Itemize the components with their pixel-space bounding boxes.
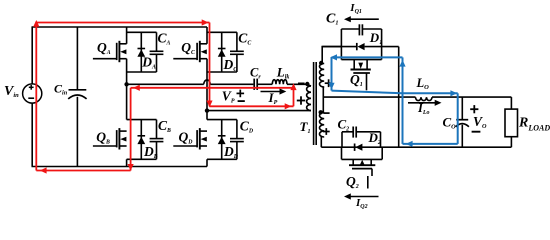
wire: CB branch bottom (156, 142, 158, 160)
wire: QA leg drain (126, 27, 128, 44)
wire: CO branch top (461, 97, 463, 119)
wire: blue middle horizontal (332, 91, 458, 94)
wire: D1 branch (322, 46, 356, 48)
wire: red right-leg vertical (209, 23, 211, 107)
wire: red transformer-side vertical (293, 88, 295, 107)
wire: clamp common vertical to output rail (398, 47, 400, 148)
wire: Q2 branch (341, 147, 343, 159)
wire: CD branch bottom (236, 142, 238, 160)
transformer T1 core (313, 62, 315, 145)
wire: Cr to Llk (258, 83, 272, 85)
red arrow down right-leg (206, 101, 212, 108)
voltage source Vin (23, 84, 42, 103)
capacitor CC (230, 51, 244, 54)
wire: Cin branch top (76, 27, 78, 89)
diode D2 (on bottom rail) (354, 144, 356, 151)
wire: DC branch (221, 32, 223, 72)
wire: LO to output node (432, 96, 511, 98)
diode DD (218, 136, 226, 144)
transistor QD (173, 128, 207, 149)
wire: top rail (32, 26, 208, 28)
diode D1 (356, 43, 358, 50)
blue arrow left clamp top (330, 54, 337, 60)
red arrow right lower segment (285, 103, 292, 109)
wire: red loop left vertical (35, 22, 37, 171)
wire: DA branch (140, 32, 142, 72)
wire: red lower segment to transformer (210, 105, 294, 107)
wire: top secondary to clamp (322, 47, 341, 63)
label secondary top plus (325, 82, 333, 84)
transformer T1 primary winding (307, 86, 311, 111)
transistor QC (173, 41, 207, 62)
transistor QA (93, 41, 127, 62)
wire: CO branch bottom (461, 125, 463, 147)
wire: CA branch bottom (156, 55, 158, 73)
diode DA (137, 49, 145, 57)
wire: QD group top bus (207, 119, 237, 121)
wire: DD branch (221, 120, 223, 160)
red arrow left upper return (133, 85, 140, 91)
node: right leg midpoint (205, 108, 209, 112)
blue arrow left output bottom (406, 141, 413, 147)
node: secondary top dot (319, 61, 323, 65)
wire: red left-leg vertical (130, 88, 132, 171)
wire: QA group top bus (127, 31, 157, 33)
wire: QC leg drain (206, 27, 208, 44)
wire: top secondary bottom to center tap (322, 87, 324, 113)
capacitor CO (456, 119, 468, 121)
wire: clamp2 right vertical (380, 132, 382, 147)
wire: CC branch bottom (236, 55, 238, 73)
transistor QB (93, 128, 127, 149)
red arrow left bottom rail (40, 167, 47, 173)
label VO plus (470, 108, 478, 110)
wire: QC group top bus (207, 31, 237, 33)
transformer T1 secondary top winding (320, 64, 325, 88)
wire: blue output right vertical (457, 93, 459, 144)
red arrow down left-leg (128, 164, 134, 171)
resistor RLOAD leads (510, 97, 512, 109)
inductor LO (416, 97, 433, 101)
diode DB (137, 136, 145, 144)
blue arrow right middle (450, 90, 457, 96)
wire: clamp1 left vertical (340, 29, 342, 60)
wire: QA group bottom bus (127, 71, 157, 73)
blue arrow up long vertical (399, 60, 405, 67)
node: secondary bottom dot (319, 110, 323, 114)
wire: QD group bottom bus (207, 158, 237, 160)
wire: QB group bottom bus (127, 158, 157, 160)
wire: QA leg source to midpoint (126, 59, 128, 120)
capacitor C1 (358, 24, 360, 35)
inductor Llk (272, 80, 287, 85)
wire: blue output bottom (403, 143, 458, 145)
node: primary dot (305, 82, 309, 86)
wire: left rail upper (31, 27, 33, 84)
wire: CC branch top (236, 32, 238, 51)
wire: bottom secondary to bottom rail (320, 137, 322, 148)
wire: CB branch top (156, 120, 158, 139)
label secondary bottom minus (323, 112, 329, 114)
transistor Q2 (349, 159, 375, 188)
wire: Q1 branch (341, 59, 381, 61)
capacitor CD (230, 139, 244, 142)
wire: QD leg source to bottom rail (206, 159, 208, 166)
label primary polarity plus (297, 100, 305, 102)
wire: QC group bottom bus (207, 71, 237, 73)
capacitor Cin (69, 89, 87, 91)
red arrow up at top-left (33, 20, 39, 27)
transformer T1 secondary bottom winding (320, 113, 325, 138)
wire: C1 branch (341, 28, 359, 30)
wire: secondary-side rail (right leg midpoint to primary bottom) (207, 110, 311, 112)
wire: Llk to primary (287, 83, 307, 85)
wire: QB leg source to bottom rail (126, 159, 128, 166)
current arrow ILo (408, 102, 436, 104)
wire: clamp2 left vertical (341, 132, 343, 147)
capacitor CA (150, 51, 164, 54)
wire: center tap output rail (323, 96, 415, 98)
wire: clamp1 right vertical (381, 29, 383, 60)
label VO minus (472, 131, 481, 133)
capacitor Cr (253, 79, 255, 90)
wire: QC leg source to midpoint (206, 59, 208, 120)
red arrow up transformer-side (290, 83, 296, 90)
current arrow IP (261, 91, 281, 93)
wire: left rail lower (31, 103, 33, 166)
wire: red loop top rail (36, 22, 209, 24)
current arrow IQ2 (348, 196, 379, 198)
wire: bottom rail (32, 166, 208, 168)
blue arrow down clamp left (328, 83, 334, 90)
wire: primary rail with crossover hop (127, 83, 204, 85)
label primary polarity minus (298, 82, 305, 84)
wire: blue clamp loop left vertical (331, 57, 333, 90)
wire: C2 branch (342, 131, 353, 133)
wire: blue long vertical (402, 57, 404, 143)
wire: bottom output rail (321, 146, 511, 148)
diode DC (218, 49, 226, 57)
resistor RLOAD (505, 109, 518, 137)
current arrow IQ1 (348, 18, 379, 20)
wire: DB branch (140, 120, 142, 160)
wire: red loop bottom rail (36, 170, 130, 172)
wire: Cin branch bottom (76, 97, 78, 167)
transistor Q1 (351, 60, 371, 91)
wire: CA branch top (156, 32, 158, 51)
wire: QB group top bus (127, 119, 157, 121)
wire: red upper return rail (131, 87, 294, 89)
wire: CD branch top (236, 120, 238, 139)
wire: blue clamp loop top (332, 56, 403, 58)
label secondary bottom plus (323, 131, 330, 133)
red arrow right on top rail (202, 19, 209, 25)
capacitor CB (150, 139, 164, 142)
node: left leg midpoint (124, 82, 128, 86)
capacitor C2 (352, 127, 354, 138)
